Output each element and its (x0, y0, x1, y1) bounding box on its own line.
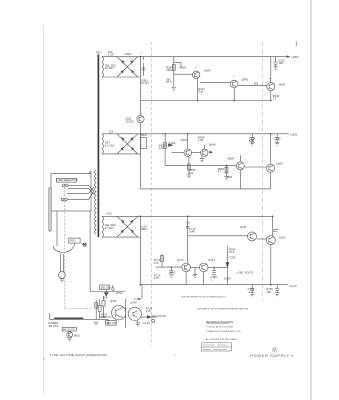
svg-text:SEL: SEL (81, 242, 87, 246)
svg-text:1.2A: 1.2A (108, 53, 114, 57)
svg-text:12V: 12V (109, 129, 114, 133)
svg-text:10k: 10k (189, 171, 194, 175)
svg-text:LINE SELECTOR: LINE SELECTOR (57, 178, 78, 182)
svg-text:125 DC: 125 DC (125, 119, 134, 123)
svg-text:+: + (174, 354, 176, 358)
svg-text:+: + (43, 357, 45, 361)
svg-text:2.2k: 2.2k (146, 309, 152, 313)
svg-text:+100V: +100V (290, 132, 298, 136)
svg-text:T60: T60 (96, 50, 101, 54)
svg-text:5.6k: 5.6k (198, 89, 204, 93)
svg-text:C602: C602 (125, 52, 132, 56)
svg-text:+12: +12 (185, 220, 190, 224)
svg-text:1: 1 (295, 41, 298, 47)
svg-text:① OSCILLATOR & DISCRIM: ① OSCILLATOR & DISCRIM (206, 326, 233, 329)
svg-text:Q634: Q634 (181, 138, 188, 142)
svg-text:Q705: Q705 (130, 300, 137, 304)
svg-text:D702: D702 (116, 291, 123, 295)
svg-text:6.3 VAC: 6.3 VAC (105, 143, 115, 147)
svg-text:D769: D769 (224, 276, 231, 280)
svg-text:1.5: 1.5 (273, 96, 277, 100)
svg-text:F601: F601 (70, 239, 77, 243)
svg-text:Q604: Q604 (204, 68, 211, 72)
svg-text:C640: C640 (274, 136, 281, 140)
svg-text:Ⓥ: Ⓥ (272, 346, 278, 354)
svg-text:(SEL): (SEL) (141, 227, 148, 231)
svg-text:C604: C604 (180, 65, 187, 69)
svg-text:Q734: Q734 (208, 258, 215, 262)
svg-text:R616: R616 (141, 133, 148, 137)
svg-text:6.3V: 6.3V (106, 211, 112, 215)
svg-text:ON OFF: ON OFF (48, 324, 59, 328)
svg-text:4.7: 4.7 (218, 169, 222, 173)
svg-text:S601: S601 (74, 333, 81, 337)
svg-text:REFERENCE DIAGRAMS: REFERENCE DIAGRAMS (206, 321, 234, 324)
svg-text:+ SEL VOLTS: + SEL VOLTS (149, 314, 166, 318)
svg-text:Q757: Q757 (240, 225, 247, 229)
svg-text:+300V: +300V (291, 55, 299, 59)
svg-text:2x40: 2x40 (189, 229, 195, 233)
svg-text:SEE IMPORTANT NOTE VOLTAGE ADJ: SEE IMPORTANT NOTE VOLTAGE ADJUST (181, 295, 226, 298)
svg-text:Q767: Q767 (279, 236, 286, 240)
svg-text:POWER SUPPLY: POWER SUPPLY (250, 354, 290, 358)
svg-text:+ DEL VOLTS: + DEL VOLTS (236, 271, 253, 275)
svg-text:180: 180 (266, 290, 271, 294)
svg-text:565: 565 (254, 82, 259, 86)
svg-text:Q657: Q657 (276, 161, 283, 165)
svg-text:Q644: Q644 (209, 142, 216, 146)
svg-text:470: 470 (154, 261, 159, 265)
svg-text:-12.2V: -12.2V (142, 321, 150, 325)
svg-text:C769: C769 (229, 255, 236, 259)
svg-text:1.5k: 1.5k (198, 138, 204, 142)
svg-text:Q654: Q654 (228, 156, 235, 160)
svg-text:C625: C625 (169, 141, 176, 145)
svg-text:6.8k: 6.8k (101, 315, 107, 319)
svg-text:SEL 702: SEL 702 (106, 321, 117, 325)
svg-text:6.25: 6.25 (249, 139, 255, 143)
svg-text:ALL DEVICES FOR INFO PANEL: ALL DEVICES FOR INFO PANEL (206, 338, 238, 341)
svg-text:Q645: Q645 (241, 77, 248, 81)
svg-text:② MARKER & TRIGGER AMP CCTS: ② MARKER & TRIGGER AMP CCTS (206, 330, 241, 333)
svg-text:2.7k: 2.7k (154, 276, 160, 280)
svg-text:27k: 27k (159, 146, 164, 150)
svg-text:SEL 115-230: SEL 115-230 (63, 329, 75, 331)
svg-text:87 V: 87 V (166, 80, 172, 84)
svg-text:.001: .001 (278, 61, 284, 65)
svg-text:TYPE 184 TIME-MARK GENERATOR: TYPE 184 TIME-MARK GENERATOR (50, 353, 108, 357)
svg-text:17 SET: 17 SET (105, 226, 114, 230)
svg-text:23 SET: 23 SET (105, 66, 114, 70)
svg-text:Q647: Q647 (279, 82, 286, 86)
svg-text:C654: C654 (226, 175, 233, 179)
svg-text:21 4x7: 21 4x7 (141, 81, 150, 85)
svg-text:160k: 160k (166, 68, 172, 72)
svg-text:C713: C713 (169, 270, 176, 274)
svg-text:-12.2V: -12.2V (289, 284, 297, 288)
svg-text:Q714: Q714 (177, 258, 184, 262)
svg-text:Q702: Q702 (110, 299, 117, 303)
svg-text:24.9: 24.9 (229, 250, 235, 254)
svg-text:SEL 601: SEL 601 (101, 285, 112, 289)
svg-text:SEE PARTS LIST FOR EARLIER VAL: SEE PARTS LIST FOR EARLIER VALUES AND S/… (197, 308, 248, 311)
